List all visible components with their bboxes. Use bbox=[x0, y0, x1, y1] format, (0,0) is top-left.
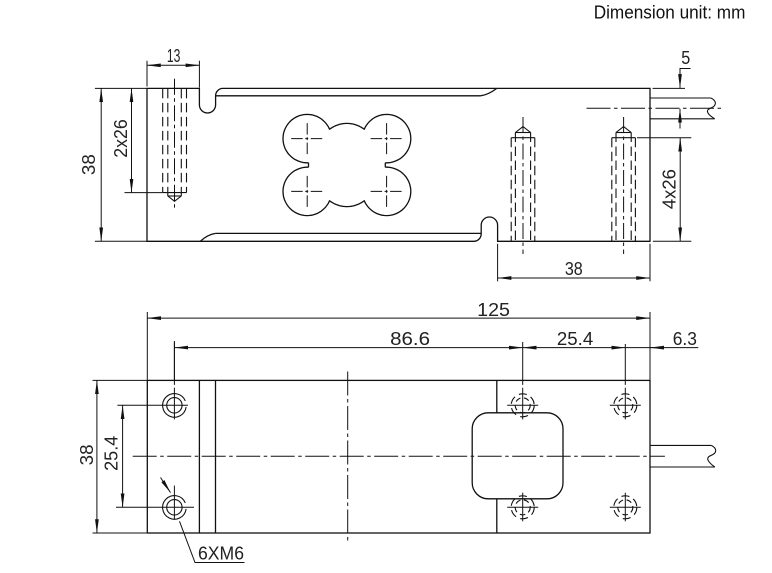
plan view: body rectangle bbox=[147, 380, 650, 533]
dimension 25.4 plan: dimension line bbox=[122, 405, 124, 507]
svg-text:Dimension unit: mm: Dimension unit: mm bbox=[594, 2, 746, 23]
dimension 6.3: outside arrow bbox=[650, 347, 663, 349]
svg-text:2x26: 2x26 bbox=[111, 119, 131, 157]
svg-text:4x26: 4x26 bbox=[660, 169, 680, 209]
dimension 6.3: line and tail bbox=[625, 347, 698, 349]
dimension 5: upper arrow bbox=[679, 69, 681, 88]
svg-text:38: 38 bbox=[79, 154, 99, 175]
side view: bottom-tapped hole M6 depth 26 at x=623.6 bbox=[612, 117, 636, 254]
plan view: cable with break symbol bbox=[650, 445, 716, 467]
dimension 86.6: dimension line bbox=[174, 347, 522, 349]
svg-text:38: 38 bbox=[565, 259, 583, 279]
svg-text:86.6: 86.6 bbox=[390, 329, 430, 349]
plan view: hole centerline x=522.7 bottom bbox=[522, 493, 524, 522]
side view: binocular clover cutout bbox=[283, 114, 411, 215]
dimension 38 plan: extension lines bbox=[93, 380, 147, 533]
plan view: hole centerline x=625.3 top bbox=[624, 344, 626, 419]
side view: bottom-tapped hole M6 depth 26 at x=523.0 bbox=[511, 117, 535, 254]
dimension 2x26: extension line at thread bottom bbox=[125, 192, 163, 194]
dimension 25.4 top: dimension line bbox=[523, 347, 626, 349]
plan view: mounting block boundary line bbox=[496, 380, 498, 533]
plan view: horizontal centerline bbox=[133, 455, 665, 457]
plan view: hole centerline x=522.7 top bbox=[522, 342, 524, 419]
dimension 38 left: dimension line bbox=[100, 88, 102, 241]
dimension 38 bottom of side view: dimension line bbox=[498, 277, 650, 279]
dimension 38 left: extension lines bbox=[95, 88, 147, 241]
dimension 5: text tail bbox=[680, 68, 691, 70]
side view: clover hole center mark 3 bbox=[291, 176, 323, 207]
dimension 4x26: extension lines bbox=[637, 138, 691, 242]
dimension 5: lower arrow and tail bbox=[679, 109, 681, 129]
plan view: hidden tapped hole M6 at (625.3,405.3) bbox=[610, 394, 641, 417]
plan view: hidden tapped hole M6 at (522.7,507.3) bbox=[507, 496, 538, 519]
svg-text:125: 125 bbox=[477, 300, 510, 320]
dimension 4x26: dimension line bbox=[679, 138, 681, 242]
side view: cable centerline bbox=[587, 107, 724, 109]
plan view: left top hole cross lines bbox=[117, 341, 188, 419]
plan view: hole centerline x=625.3 bottom bbox=[624, 493, 626, 522]
side view: left threaded hole M6 depth 26 (hidden lines + drill point + centerline) bbox=[163, 79, 187, 208]
dimension 2x26: dimension line bbox=[131, 88, 133, 192]
label 6XM6: leader arrow bbox=[161, 478, 171, 493]
plan view: rounded square pocket bbox=[472, 413, 563, 499]
svg-text:25.4: 25.4 bbox=[557, 329, 593, 349]
side view: load cell body outline with top and bottom relief notches bbox=[147, 88, 650, 241]
svg-text:25.4: 25.4 bbox=[101, 436, 121, 471]
svg-text:5: 5 bbox=[681, 48, 690, 68]
plan view: left bottom hole cross lines bbox=[116, 486, 194, 519]
plan view: hidden tapped hole M6 at (522.7,405.3) bbox=[507, 394, 538, 417]
dimension 125: extension lines bbox=[147, 312, 650, 380]
svg-text:38: 38 bbox=[77, 444, 97, 465]
dimension 38 bottom of side view: extension lines bbox=[498, 244, 650, 281]
side view: cable with break symbol bbox=[650, 98, 715, 119]
svg-text:13: 13 bbox=[167, 46, 181, 66]
dimension 86.6: extension line bbox=[173, 342, 175, 380]
plan view: recess boundary line 2 bbox=[215, 380, 217, 533]
plan view: visible tapped hole M6 at y=507.3 bbox=[163, 496, 187, 520]
svg-text:6XM6: 6XM6 bbox=[198, 544, 244, 564]
dimension 125: dimension line bbox=[147, 317, 650, 319]
label 6XM6: leader tail and underline bbox=[180, 521, 245, 562]
dimension 5: extension line of top edge bbox=[653, 87, 685, 89]
dimension 38 plan: dimension line bbox=[96, 380, 98, 533]
side view: bottom milled recess line bbox=[200, 233, 481, 241]
side view: top milled recess line bbox=[216, 88, 497, 95]
dimension 13: extension lines bbox=[147, 61, 199, 88]
plan view: visible tapped hole M6 at y=405.3 bbox=[163, 394, 187, 418]
dimension 13: dimension line bbox=[147, 64, 199, 66]
svg-text:6.3: 6.3 bbox=[673, 329, 697, 349]
plan view: hidden tapped hole M6 at (625.3,507.3) bbox=[610, 496, 641, 519]
plan view: recess boundary line 1 bbox=[198, 380, 200, 533]
plan view: vertical centerline bbox=[347, 372, 349, 541]
side view: clover hole center mark 2 bbox=[371, 123, 403, 154]
side view: clover hole center mark 4 bbox=[371, 176, 403, 207]
side view: clover hole center mark 1 bbox=[291, 123, 323, 154]
